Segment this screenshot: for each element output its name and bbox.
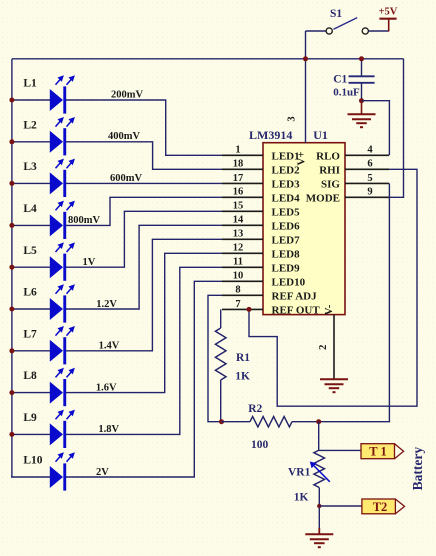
svg-text:V+: V+ [295,151,307,165]
svg-text:LED6: LED6 [272,221,301,233]
wire: L2 anode from bus [11,141,50,143]
svg-text:1K: 1K [235,371,250,383]
pin 17 (LED3) stub [222,182,263,184]
junction dot L6 row [9,307,14,312]
terminal T2 flag [362,499,396,514]
svg-text:R2: R2 [248,403,262,415]
wire: REF ADJ pin 8 down [208,295,222,421]
pin 12 (LED8) stub [222,252,263,254]
svg-text:4: 4 [367,145,373,156]
junction dot L1 row [9,98,14,103]
svg-text:T 1: T 1 [369,445,387,459]
svg-text:L3: L3 [23,161,37,173]
svg-text:VR1: VR1 [288,466,311,478]
wire: R1 bottom to R2 node [220,380,222,422]
wire: L5 anode from bus [11,266,50,268]
svg-text:RHI: RHI [319,165,340,177]
wire: SIG pin 5 to battery divider [319,183,390,421]
resistor R1 [215,328,226,380]
svg-text:11: 11 [233,257,243,268]
pin 13 (LED7) stub [222,238,263,240]
svg-text:LED8: LED8 [272,249,301,261]
pin 18 (LED2) stub [222,168,263,170]
svg-text:1.6V: 1.6V [96,382,117,393]
wire: V+ to C1 [361,59,363,76]
LED L7 [50,326,75,364]
LED L2 [50,117,75,155]
junction dot L5 row [9,265,14,270]
svg-text:1K: 1K [294,492,309,504]
svg-text:Battery: Battery [410,447,425,491]
LED L10 [50,452,75,490]
svg-text:8: 8 [235,285,240,296]
junction dot C1 bottom [359,98,364,103]
svg-text:REF ADJ: REF ADJ [272,291,318,303]
LED L9 [50,410,75,448]
junction dot L2 row [9,139,14,144]
svg-text:14: 14 [233,215,244,226]
ground bottom (below VR1) [305,533,333,535]
svg-text:7: 7 [235,299,240,310]
wire: L6 cathode to IC pin [66,225,222,309]
wire: RHI pin 6 to REF OUT [249,169,417,406]
op-amp U1 LM3914 IC body [263,143,345,315]
wire: L8 anode from bus [11,392,50,394]
LED L3 [50,159,75,197]
junction dot C1 top [359,56,364,61]
junction dot pin3/switch [303,56,308,61]
pin 11 (LED9) stub [222,266,263,268]
svg-text:17: 17 [233,173,244,184]
wire: V+ right side down to MODE pin 9 [389,59,404,198]
wire: REF OUT to R1 [220,309,222,328]
svg-text:0.1uF: 0.1uF [333,86,360,98]
wire: bus top to switch [306,30,327,32]
svg-text:SIG: SIG [321,179,340,191]
svg-text:15: 15 [233,201,244,212]
svg-text:1.2V: 1.2V [96,299,117,310]
wire: L7 cathode to IC pin [66,239,222,350]
wire: L1 anode from bus [11,99,50,101]
junction dot R1/R2 [219,419,224,424]
junction dot L9 row [9,432,14,437]
wire: L4 cathode to IC pin [66,197,222,225]
svg-text:5: 5 [367,173,372,184]
svg-text:L10: L10 [23,455,42,467]
wire: L3 anode from bus [11,182,50,184]
svg-text:6: 6 [367,159,372,170]
svg-text:S1: S1 [330,8,342,20]
svg-text:RLO: RLO [316,151,340,163]
svg-text:10: 10 [233,271,244,282]
wire: L9 anode from bus [11,433,50,435]
junction dot L7 row [9,348,14,353]
svg-text:L8: L8 [23,370,37,382]
svg-text:+5V: +5V [379,6,398,17]
svg-text:V-: V- [323,304,335,315]
svg-text:800mV: 800mV [68,215,100,226]
wire: L7 anode from bus [11,350,50,352]
pin 2 (V-) wire [333,315,335,380]
svg-text:2: 2 [318,345,329,350]
pin 4 (RLO) stub [345,154,389,156]
wire: C1 bottom to RLO pin 4 [362,101,390,156]
svg-text:16: 16 [233,187,244,198]
wire: VR1 bottom [318,488,320,529]
wire: L6 anode from bus [11,308,50,310]
LED L1 [50,75,75,113]
svg-text:1.8V: 1.8V [98,424,119,435]
switch S1 [326,18,368,34]
svg-text:T2: T2 [373,500,388,514]
svg-text:1.4V: 1.4V [99,341,120,352]
wire: L5 cathode to IC pin [66,211,222,267]
potentiometer VR1 [314,450,325,488]
svg-text:REF OUT: REF OUT [272,305,321,317]
wire: L10 anode from bus [11,476,50,478]
pin 10 (LED10) stub [222,280,263,282]
wire: junction down to VR1 top [318,422,320,450]
pin 7 (REF OUT) stub [222,308,263,310]
wire: VR1 top to terminal T1 [319,449,361,451]
ground under C1 [348,113,376,115]
wire: L8 cathode to IC pin [66,253,222,392]
node V+ bus: top wire [12,58,404,60]
svg-text:9: 9 [367,187,372,198]
wire: R2 left lead [222,421,251,423]
svg-text:L2: L2 [23,119,37,131]
power +5V [379,19,396,32]
pin 5 (SIG) stub [345,182,389,184]
ground under pin 2 [320,378,348,380]
junction dot R2/VR1/SIG [316,419,321,424]
pin 15 (LED5) stub [222,210,263,212]
svg-text:2V: 2V [96,467,109,478]
svg-text:LED5: LED5 [272,207,301,219]
svg-text:LED4: LED4 [272,193,301,205]
svg-text:100: 100 [251,439,269,451]
svg-text:L4: L4 [23,203,37,215]
svg-text:L9: L9 [23,412,37,424]
svg-text:LED3: LED3 [272,179,301,191]
svg-text:200mV: 200mV [111,89,143,100]
wire: L3 cathode to IC pin [66,182,222,184]
svg-text:LM3914: LM3914 [249,128,292,142]
wire: L9 cathode to IC pin [66,267,222,434]
wire: switch to +5V [369,30,389,32]
svg-text:LED9: LED9 [272,263,301,275]
svg-text:600mV: 600mV [110,173,142,184]
resistor R2 [250,417,292,427]
ground stub bottom [318,528,320,534]
junction dot L8 row [9,390,14,395]
svg-text:C1: C1 [333,73,347,85]
junction dot L3 row [9,181,14,186]
wire: L1 cathode to IC pin [66,100,222,155]
pin 9 (MODE) stub [345,196,389,198]
svg-text:12: 12 [233,243,244,254]
svg-text:1: 1 [235,145,240,156]
pin 1 (LED1) stub [222,154,263,156]
svg-text:U1: U1 [313,128,328,142]
LED L5 [50,242,75,280]
pin 3 (V+) wire [305,31,307,143]
svg-text:LED10: LED10 [272,277,306,289]
pin 16 (LED4) stub [222,196,263,198]
svg-text:L5: L5 [23,245,37,257]
terminal T1 flag [361,444,395,459]
svg-text:1V: 1V [83,257,96,268]
wire: L2 cathode to IC pin [66,142,222,170]
svg-text:L1: L1 [23,78,37,90]
LED L6 [50,284,75,322]
svg-text:13: 13 [233,229,244,240]
svg-text:400mV: 400mV [108,131,140,142]
svg-text:3: 3 [287,116,298,121]
capacitor C1 [349,76,375,83]
pin 8 (REF ADJ) stub [222,294,263,296]
LED L4 [50,201,75,239]
wire: C1 bottom [361,83,363,101]
svg-text:18: 18 [233,159,244,170]
wire: L10 cathode to IC pin [66,281,222,477]
LED L8 [50,368,75,406]
pin 6 (RHI) stub [345,168,389,170]
pin 14 (LED6) stub [222,224,263,226]
svg-text:MODE: MODE [306,193,340,205]
junction dot VR1 bottom / T2 [317,504,321,508]
svg-text:L7: L7 [23,328,37,340]
ground stub under C1 [361,101,363,115]
svg-text:L6: L6 [23,287,37,299]
wire: L4 anode from bus [11,224,50,226]
wire: left LED anode bus [11,59,13,477]
wire: R2 right lead [292,421,319,423]
svg-text:R1: R1 [236,352,250,364]
svg-text:LED7: LED7 [272,235,301,247]
junction dot REF OUT [247,307,252,312]
wire: to terminal T2 [319,505,362,507]
junction dot L4 row [9,223,14,228]
